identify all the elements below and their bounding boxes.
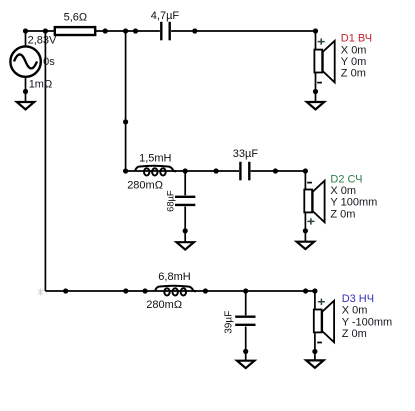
svg-text:280mΩ: 280mΩ <box>127 179 163 191</box>
AC source sine <box>14 54 37 68</box>
junction top wire after resistor <box>103 28 108 33</box>
inductor L1 1,5mH <box>135 166 176 176</box>
svg-text:68µF: 68µF <box>165 190 176 212</box>
wire source top <box>25 31 27 47</box>
junction at source top / top wire <box>23 28 28 33</box>
svg-text:Y 100mm: Y 100mm <box>330 197 377 209</box>
junction D2 bottom / ground <box>303 228 308 233</box>
svg-text:D3 НЧ: D3 НЧ <box>342 293 374 305</box>
D2 minus <box>307 182 312 184</box>
ground under source <box>17 102 34 109</box>
svg-text:Z 0m: Z 0m <box>341 68 366 80</box>
junction D1 bottom / ground <box>313 89 318 94</box>
D3 plus <box>318 299 325 305</box>
junction middle wire before D2 <box>273 168 278 173</box>
speaker D3 <box>314 301 334 343</box>
inductor L2 6,8mH <box>155 286 196 296</box>
svg-text:Z 0m: Z 0m <box>342 328 367 340</box>
wire source bottom to ground <box>25 77 27 102</box>
ground under D2 <box>297 242 314 249</box>
junction top wire / left bus <box>43 28 48 33</box>
junction D3 top node <box>312 288 317 293</box>
svg-text:2,83V: 2,83V <box>28 35 57 47</box>
ground under D1 <box>307 102 324 109</box>
junction D3 bottom / ground <box>312 349 317 354</box>
junction C 68uF / ground <box>183 228 188 233</box>
capacitor C3 33uF <box>239 162 251 182</box>
junction middle wire / C 68uF <box>183 168 188 173</box>
svg-text:Z 0m: Z 0m <box>330 208 355 220</box>
ground under 68uF <box>177 242 194 249</box>
wire left bus vertical <box>44 31 46 291</box>
junction source bottom / ground <box>23 89 28 94</box>
D2 plus <box>307 218 314 224</box>
junction top wire / middle drop wire <box>123 28 128 33</box>
junction bottom wire segment 1 <box>63 288 68 293</box>
speaker D1 <box>314 41 334 83</box>
D1 minus <box>317 82 322 84</box>
svg-text:X 0m: X 0m <box>330 185 356 197</box>
junction top wire before D1 <box>192 28 197 33</box>
svg-text:D1 ВЧ: D1 ВЧ <box>341 33 372 45</box>
junction top wire segment <box>133 28 138 33</box>
junction bottom wire / C 39uF <box>243 288 248 293</box>
svg-text:280mΩ: 280mΩ <box>146 299 182 311</box>
junction on middle drop wire <box>123 119 128 124</box>
wire bottom horizontal <box>45 290 315 292</box>
junction bottom wire before D3 <box>303 288 308 293</box>
wire middle drop vertical <box>125 31 127 171</box>
wire C2 68uF vertical <box>184 171 186 242</box>
svg-text:1,5mH: 1,5mH <box>139 152 171 164</box>
svg-text:6,8mH: 6,8mH <box>158 271 190 283</box>
D3 minus <box>317 342 322 344</box>
wire D1 bottom to ground <box>315 72 317 102</box>
wire D1 top <box>315 31 317 50</box>
svg-text:X 0m: X 0m <box>341 44 367 56</box>
wire D3 top <box>314 291 316 310</box>
wire D2 top <box>304 171 306 190</box>
svg-text:1mΩ: 1mΩ <box>29 78 53 90</box>
junction C 39uF / ground <box>243 349 248 354</box>
svg-text:Y -100mm: Y -100mm <box>342 316 393 328</box>
wire D2 bottom to ground <box>304 212 306 241</box>
junction bottom wire segment 2 <box>123 288 128 293</box>
svg-text:X 0m: X 0m <box>342 305 368 317</box>
capacitor C4 39uF plates <box>234 315 256 326</box>
AC source V1 <box>10 46 40 76</box>
wire D3 bottom to ground <box>314 332 316 360</box>
capacitor C2 68uF plates <box>174 195 196 206</box>
svg-text:5,6Ω: 5,6Ω <box>64 12 88 24</box>
resistor R1 5,6ohm <box>55 27 95 35</box>
junction bottom wire after L 6,8mH <box>203 288 208 293</box>
junction middle wire corner <box>123 168 128 173</box>
ground under D3 <box>306 360 323 367</box>
svg-text:D2 СЧ: D2 СЧ <box>330 173 362 185</box>
wire C4 39uF vertical <box>245 291 247 361</box>
svg-text:4,7µF: 4,7µF <box>151 10 180 22</box>
wire middle horizontal <box>126 170 306 172</box>
junction bottom wire before L 6,8mH <box>143 288 148 293</box>
svg-text:33µF: 33µF <box>233 148 259 160</box>
svg-text:0s: 0s <box>43 56 55 68</box>
junction middle wire segment <box>214 168 219 173</box>
corner artifact mark <box>38 289 43 296</box>
junction D2 top node <box>303 168 308 173</box>
ground under 39uF <box>237 361 254 368</box>
speaker D2 <box>304 181 324 223</box>
svg-text:39µF: 39µF <box>223 311 234 334</box>
D1 plus <box>318 38 325 44</box>
wire top horizontal <box>26 30 316 32</box>
capacitor C1 4,7uF <box>160 22 171 42</box>
junction D1 top node <box>313 28 318 33</box>
svg-text:Y 0m: Y 0m <box>341 56 366 68</box>
